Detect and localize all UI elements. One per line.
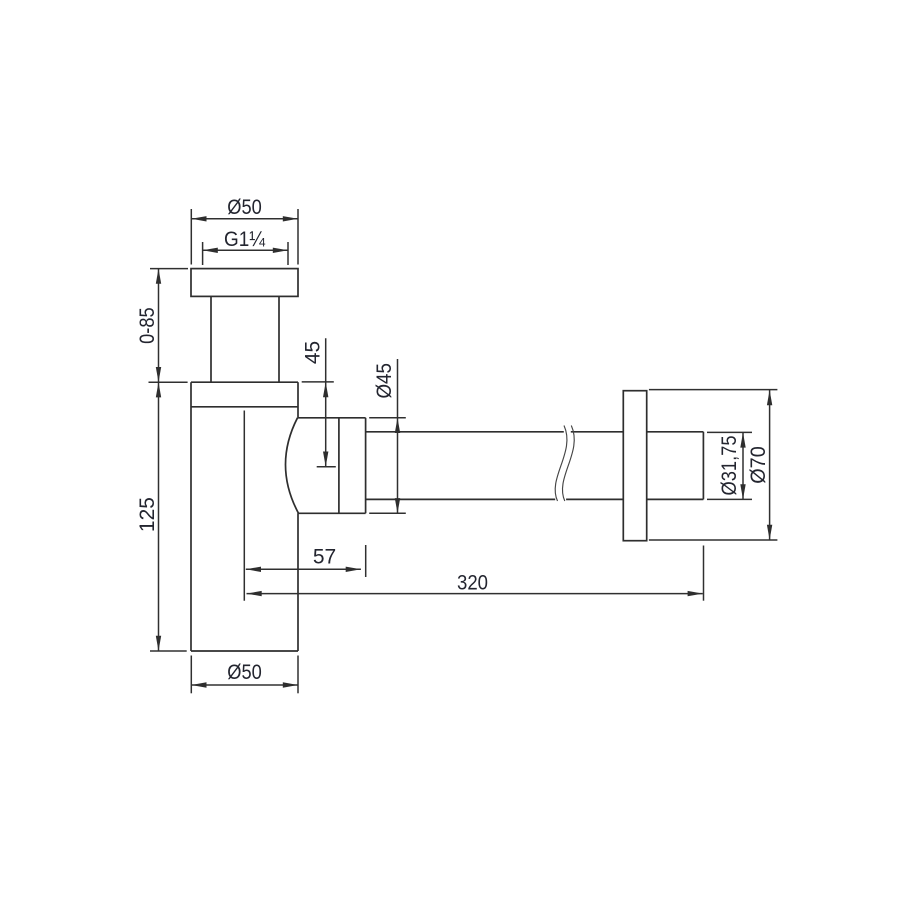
dim 125 ext line bbox=[150, 650, 187, 652]
dim Ø31,75 line bbox=[742, 432, 744, 499]
dim G1-1/4 line bbox=[203, 249, 288, 251]
arrow Ø70 up bbox=[767, 390, 772, 405]
dim 320 line bbox=[247, 593, 703, 595]
arrow Ø50 top left bbox=[191, 216, 206, 221]
dim Ø70 ext lines bbox=[649, 389, 778, 391]
body flange line bbox=[191, 406, 298, 408]
body bottom edge bbox=[191, 650, 298, 652]
svg-text:125: 125 bbox=[136, 497, 159, 532]
wall flange bbox=[623, 391, 646, 541]
nut right edge bbox=[365, 418, 367, 514]
svg-text:45: 45 bbox=[302, 341, 325, 364]
dim 45 center tick bbox=[317, 466, 336, 468]
arrow Ø50 top right bbox=[283, 216, 298, 221]
body top edge bbox=[191, 381, 298, 383]
arrow 45 up bbox=[323, 382, 328, 397]
neck right wall bbox=[278, 296, 280, 382]
svg-text:320: 320 bbox=[457, 572, 488, 595]
elbow top edge bbox=[298, 417, 366, 419]
body left wall bbox=[190, 382, 192, 651]
arrow 125 up bbox=[156, 382, 161, 397]
svg-text:Ø31,75: Ø31,75 bbox=[718, 436, 741, 496]
arrow 125 down bbox=[156, 636, 161, 651]
dim 0-85 line bbox=[158, 269, 160, 383]
elbow bottom edge bbox=[299, 512, 366, 514]
arrow 57 right bbox=[346, 567, 361, 572]
arrow Ø31,75 up bbox=[740, 432, 745, 447]
dim 125 line bbox=[158, 382, 160, 651]
arrow 320 right bbox=[688, 591, 703, 596]
arrow G1-1/4 right bbox=[273, 248, 288, 253]
centerline of body bbox=[243, 411, 245, 601]
svg-text:0-85: 0-85 bbox=[136, 307, 159, 344]
arrow Ø70 down bbox=[767, 525, 772, 540]
dim 57 line bbox=[246, 568, 361, 570]
svg-text:Ø70: Ø70 bbox=[747, 446, 770, 484]
elbow fillet arc bbox=[285, 418, 298, 514]
dim 45 ext tick top bbox=[302, 381, 334, 383]
dim Ø70 line bbox=[769, 390, 771, 540]
dim G1-1/4 ext lines bbox=[202, 242, 204, 265]
body right wall lower bbox=[297, 513, 299, 651]
arrow G1-1/4 left bbox=[203, 248, 218, 253]
arrow 0-85 up bbox=[156, 269, 161, 284]
dim Ø50 bottom ext lines bbox=[190, 656, 192, 694]
nut joint line bbox=[338, 418, 340, 514]
arrow Ø31,75 down bbox=[740, 484, 745, 499]
pipe end bbox=[702, 432, 704, 500]
svg-text:Ø45: Ø45 bbox=[373, 363, 396, 399]
body right wall upper bbox=[297, 382, 299, 418]
arrow 0-85 down bbox=[156, 367, 161, 382]
dim 57 right ext bbox=[365, 545, 367, 577]
dim Ø45 ext tick bottom bbox=[369, 512, 406, 514]
arrow 320 left bbox=[247, 591, 262, 596]
arrow Ø45 up bbox=[395, 418, 400, 433]
pipe bottom right segment bbox=[566, 498, 623, 500]
dim Ø45 ext tick top bbox=[369, 417, 406, 419]
dim Ø50 top ext lines bbox=[190, 209, 192, 265]
top flange outline bbox=[191, 269, 298, 297]
arrow Ø50 bottom left bbox=[191, 682, 206, 687]
svg-text:57: 57 bbox=[313, 546, 336, 569]
arrow Ø50 bottom right bbox=[283, 682, 298, 687]
svg-text:Ø50: Ø50 bbox=[227, 661, 262, 684]
pipe break curve right bbox=[562, 426, 574, 502]
svg-text:Ø50: Ø50 bbox=[227, 196, 262, 219]
dim 0-85 ext lines bbox=[150, 268, 188, 270]
svg-text:G1¼: G1¼ bbox=[224, 228, 265, 251]
dim Ø45 line bbox=[397, 359, 399, 513]
arrow 57 left bbox=[246, 567, 261, 572]
pipe bottom left segment bbox=[366, 498, 556, 500]
arrow Ø45 down bbox=[395, 498, 400, 513]
dim 320 right ext bbox=[703, 546, 705, 601]
dim Ø50 bottom line bbox=[191, 684, 298, 686]
neck left wall bbox=[210, 296, 212, 382]
pipe break curve left bbox=[555, 426, 567, 502]
arrow 45 down bbox=[323, 452, 328, 467]
dim Ø50 top line bbox=[191, 218, 298, 220]
pipe after flange bottom bbox=[647, 498, 704, 500]
dim 45 line bbox=[325, 338, 327, 467]
pipe after flange top bbox=[647, 431, 704, 433]
pipe top right segment bbox=[571, 431, 624, 433]
pipe top left segment bbox=[366, 431, 564, 433]
dim Ø31,75 ext lines bbox=[707, 431, 752, 433]
